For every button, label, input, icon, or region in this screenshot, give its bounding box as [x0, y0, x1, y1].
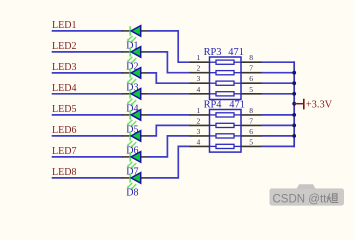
wire RP3 pin 5 to bus [262, 93, 296, 95]
junction at RP3 pin 6 [292, 81, 296, 85]
svg-text:D8: D8 [126, 188, 138, 199]
svg-text:7: 7 [249, 64, 253, 73]
pin RP4-5 [241, 137, 262, 146]
wire D1 to RP3 pin 1 [147, 31, 190, 62]
wire LED2 [52, 51, 123, 53]
svg-text:LED4: LED4 [52, 83, 76, 94]
junction at power tap [292, 102, 296, 106]
svg-text:CSDN @tt: CSDN @tt [273, 194, 328, 206]
junction at RP3 pin 7 [292, 71, 296, 75]
pin RP3-7 [241, 64, 262, 73]
svg-text:3: 3 [197, 74, 201, 83]
pin RP3-6 [241, 74, 262, 83]
pin RP4-6 [241, 127, 262, 136]
svg-text:7: 7 [249, 116, 253, 125]
svg-text:2: 2 [197, 64, 201, 73]
wire LED6 [52, 135, 123, 137]
resistor RP3 element 3 [210, 81, 241, 85]
wire RP3 pin 8 to bus [262, 61, 296, 63]
wire D8 to RP4 pin 4 [147, 146, 190, 178]
wire D3 to RP3 pin 3 [147, 73, 190, 83]
svg-text:8: 8 [249, 53, 253, 62]
svg-text:6: 6 [249, 74, 253, 83]
pin RP4-2 [190, 116, 211, 125]
svg-text:LED1: LED1 [52, 20, 76, 31]
wire D4 to RP3 pin 4 [147, 93, 190, 95]
wire RP4 pin 7 to bus [262, 124, 296, 126]
svg-text:LED7: LED7 [52, 146, 76, 157]
resistor RP3 element 1 [210, 60, 241, 64]
LED D7 [122, 152, 147, 169]
pin RP3-3 [190, 74, 211, 83]
pin RP3-2 [190, 64, 211, 73]
resistor RP4 element 3 [210, 134, 241, 138]
resistor RP3 element 4 [210, 92, 241, 96]
pin RP4-1 [190, 106, 211, 115]
LED D5 [122, 110, 147, 127]
wire LED4 [52, 93, 123, 95]
svg-text:RP3: RP3 [204, 47, 222, 58]
svg-text:LED2: LED2 [52, 41, 76, 52]
pin RP4-8 [241, 106, 262, 115]
wire LED3 [52, 72, 123, 74]
wire D7 to RP4 pin 3 [147, 136, 190, 157]
resistor RP4 element 2 [210, 123, 241, 127]
svg-text:1: 1 [197, 106, 201, 115]
svg-text:471: 471 [228, 47, 244, 58]
svg-text:5: 5 [249, 137, 253, 146]
svg-text:LED3: LED3 [52, 62, 76, 73]
svg-text:6: 6 [249, 127, 253, 136]
svg-text:5: 5 [249, 85, 253, 94]
pin RP3-1 [190, 53, 211, 62]
resistor RP4 element 4 [210, 144, 241, 148]
resistor pack RP4 body [210, 110, 242, 153]
svg-text:LED6: LED6 [52, 125, 76, 136]
resistor RP4 element 1 [210, 113, 241, 117]
LED D2 [122, 47, 147, 64]
junction at RP4 pin 8 [292, 113, 296, 117]
wire D5 to RP4 pin 1 [147, 114, 190, 116]
pin RP3-5 [241, 85, 262, 94]
wire RP4 pin 5 to bus [262, 145, 296, 147]
svg-text:LED8: LED8 [52, 167, 76, 178]
wire RP4 pin 6 to bus [262, 135, 296, 137]
wire LED5 [52, 114, 123, 116]
svg-text:3: 3 [197, 127, 201, 136]
svg-text:RP4: RP4 [204, 99, 223, 110]
junction at RP3 pin 5 [292, 92, 296, 96]
svg-text:471: 471 [229, 99, 245, 110]
wire LED1 [52, 30, 123, 32]
wire LED8 [52, 177, 123, 179]
pin RP4-3 [190, 127, 211, 136]
resistor pack RP3 body [210, 57, 242, 100]
wire D2 to RP3 pin 2 [147, 52, 190, 73]
resistor RP3 element 2 [210, 71, 241, 75]
LED D8 [122, 173, 147, 190]
pin RP4-7 [241, 116, 262, 125]
svg-text:1: 1 [197, 53, 201, 62]
pin RP4-4 [190, 137, 211, 146]
pin RP3-8 [241, 53, 262, 62]
power port +3.3V [294, 99, 332, 111]
junction at RP4 pin 7 [292, 124, 296, 128]
LED D1 [122, 26, 147, 43]
svg-text:LED5: LED5 [52, 104, 76, 115]
LED D4 [122, 89, 147, 106]
pin RP3-4 [190, 85, 211, 94]
LED D3 [122, 68, 147, 85]
svg-text:4: 4 [197, 137, 201, 146]
LED D6 [122, 131, 147, 148]
wire RP4 pin 8 to bus [262, 114, 296, 116]
wire D6 to RP4 pin 2 [147, 125, 190, 135]
svg-text:2: 2 [197, 116, 201, 125]
svg-text:8: 8 [249, 106, 253, 115]
junction at RP4 pin 6 [292, 134, 296, 138]
wire LED7 [52, 156, 123, 158]
wire RP3 pin 6 to bus [262, 82, 296, 84]
svg-text:+3.3V: +3.3V [306, 99, 333, 110]
svg-text:4: 4 [197, 85, 201, 94]
wire RP3 pin 7 to bus [262, 72, 296, 74]
wire +3.3V bus vertical [293, 61, 295, 147]
